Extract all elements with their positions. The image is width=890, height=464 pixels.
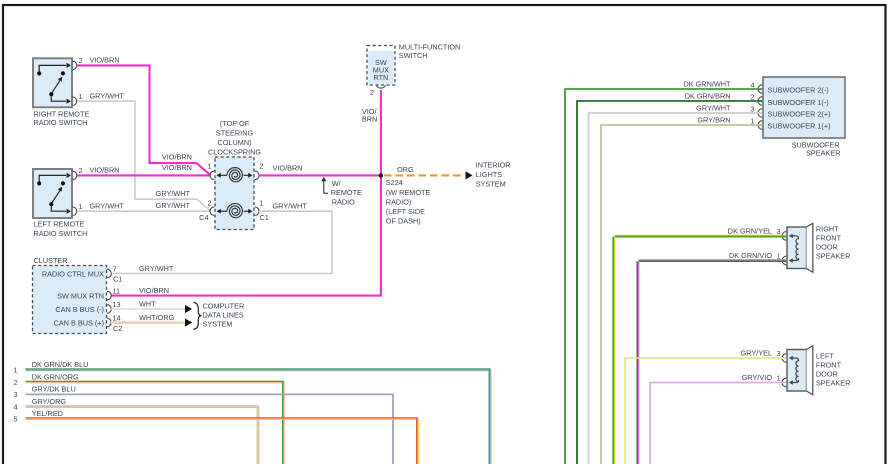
svg-text:5: 5 bbox=[13, 414, 17, 423]
svg-text:W/: W/ bbox=[332, 179, 342, 188]
clockspring left pin 2 connector bbox=[210, 207, 214, 216]
subwoofer pin 2 connector bbox=[758, 97, 762, 106]
wire VIO/BRN right switch pin 2 bbox=[77, 65, 211, 175]
svg-text:3: 3 bbox=[13, 390, 17, 399]
w/ remote radio annotation bbox=[321, 177, 326, 181]
svg-text:DATA LINES: DATA LINES bbox=[203, 311, 244, 320]
right front door speaker pin 3 connector bbox=[782, 232, 786, 241]
svg-text:VIO/BRN: VIO/BRN bbox=[162, 163, 192, 172]
svg-text:GRY/BRN: GRY/BRN bbox=[697, 116, 730, 125]
svg-text:DOOR: DOOR bbox=[816, 242, 838, 251]
svg-text:GRY/DK BLU: GRY/DK BLU bbox=[32, 385, 76, 394]
svg-text:RADIO SWITCH: RADIO SWITCH bbox=[34, 118, 88, 127]
svg-text:S224: S224 bbox=[386, 178, 403, 187]
svg-text:RADIO: RADIO bbox=[332, 198, 355, 207]
wire GRY/WHT bbox=[589, 113, 763, 464]
svg-text:GRY/WHT: GRY/WHT bbox=[273, 201, 308, 210]
svg-text:VIO/BRN: VIO/BRN bbox=[139, 286, 169, 295]
wire DK GRN/ORG bbox=[26, 381, 285, 383]
svg-text:CAN B BUS (-): CAN B BUS (-) bbox=[55, 305, 104, 314]
left front door speaker coil bbox=[790, 358, 798, 383]
svg-text:RIGHT: RIGHT bbox=[816, 224, 839, 233]
svg-text:C4: C4 bbox=[199, 213, 208, 222]
svg-text:2: 2 bbox=[79, 166, 83, 175]
svg-text:GRY/WHT: GRY/WHT bbox=[90, 201, 125, 210]
cluster pin 14 connector bbox=[107, 318, 111, 327]
svg-text:3: 3 bbox=[750, 104, 754, 113]
svg-text:GRY/WHT: GRY/WHT bbox=[139, 264, 174, 273]
svg-text:1: 1 bbox=[260, 199, 264, 208]
svg-text:RADIO): RADIO) bbox=[386, 198, 412, 207]
svg-text:GRY/YEL: GRY/YEL bbox=[741, 348, 773, 357]
subwoofer pin 1 connector bbox=[758, 121, 762, 130]
svg-text:1: 1 bbox=[750, 116, 754, 125]
brace computer data lines bbox=[194, 302, 202, 329]
svg-text:MULTI-FUNCTION: MULTI-FUNCTION bbox=[399, 42, 460, 51]
svg-text:(TOP OF: (TOP OF bbox=[220, 119, 250, 128]
svg-text:VIO/BRN: VIO/BRN bbox=[162, 153, 192, 162]
subwoofer speaker box bbox=[763, 77, 845, 138]
cluster pin 11 connector bbox=[107, 291, 111, 300]
wire DK GRN/VIO bbox=[639, 259, 787, 261]
svg-text:(W/ REMOTE: (W/ REMOTE bbox=[386, 188, 431, 197]
left remote radio switch pin 2 connector bbox=[73, 171, 77, 180]
svg-text:DK GRN/VIO: DK GRN/VIO bbox=[729, 251, 772, 260]
right remote radio switch pin 1 connector bbox=[73, 97, 77, 106]
svg-text:LEFT: LEFT bbox=[816, 351, 834, 360]
subwoofer pin 4 connector bbox=[758, 85, 762, 94]
svg-text:LEFT REMOTE: LEFT REMOTE bbox=[34, 219, 85, 228]
svg-text:DK GRN/YEL: DK GRN/YEL bbox=[728, 226, 772, 235]
svg-text:WHT/ORG: WHT/ORG bbox=[139, 313, 175, 322]
wire GRY/WHT clockspring to cluster bbox=[111, 211, 332, 273]
clockspring right pin 2 connector bbox=[255, 171, 259, 180]
svg-text:SPEAKER: SPEAKER bbox=[806, 149, 840, 158]
wire GRY/WHT left switch pin 1 bbox=[77, 210, 211, 212]
svg-text:REMOTE: REMOTE bbox=[331, 188, 362, 197]
svg-text:7: 7 bbox=[113, 264, 117, 273]
svg-text:WHT: WHT bbox=[139, 299, 156, 308]
svg-text:BRN: BRN bbox=[362, 114, 377, 123]
svg-text:2: 2 bbox=[370, 88, 374, 97]
svg-text:OF DASH): OF DASH) bbox=[386, 217, 421, 226]
splice S224 bbox=[379, 173, 383, 177]
svg-text:COMPUTER: COMPUTER bbox=[203, 302, 245, 311]
svg-text:C1: C1 bbox=[260, 213, 269, 222]
wire VIO/BRN left switch pin 2 bbox=[77, 174, 211, 176]
svg-text:SUBWOOFER 2(-): SUBWOOFER 2(-) bbox=[768, 86, 829, 95]
svg-text:VIO/BRN: VIO/BRN bbox=[90, 166, 120, 175]
left remote radio switch pin 1 connector bbox=[73, 207, 77, 216]
clockspring right pin 1 connector bbox=[255, 207, 259, 216]
right front door speaker coil bbox=[790, 236, 798, 261]
svg-text:GRY/ORG: GRY/ORG bbox=[32, 397, 67, 406]
svg-text:C2: C2 bbox=[113, 324, 122, 333]
multi-function switch pin connector bbox=[377, 85, 386, 88]
svg-text:SPEAKER: SPEAKER bbox=[816, 251, 850, 260]
svg-text:SUBWOOFER 1(-): SUBWOOFER 1(-) bbox=[768, 98, 829, 107]
cluster pin 7 connector bbox=[107, 269, 111, 278]
subwoofer pin 3 connector bbox=[758, 109, 762, 118]
svg-text:VIO/BRN: VIO/BRN bbox=[90, 56, 120, 65]
svg-text:GRY/WHT: GRY/WHT bbox=[696, 104, 731, 113]
svg-text:YEL/RED: YEL/RED bbox=[32, 409, 63, 418]
right front door speaker cone bbox=[807, 223, 813, 272]
svg-text:1: 1 bbox=[79, 202, 83, 211]
wire DK GRN/WHT bbox=[565, 89, 762, 464]
svg-text:3: 3 bbox=[777, 349, 781, 358]
svg-text:2: 2 bbox=[207, 199, 211, 208]
cluster pin 13 connector bbox=[107, 305, 111, 314]
svg-text:DOOR: DOOR bbox=[816, 369, 838, 378]
clockspring left pin 1 connector bbox=[210, 171, 214, 180]
svg-text:13: 13 bbox=[113, 300, 121, 309]
svg-text:VIO/BRN: VIO/BRN bbox=[273, 164, 303, 173]
svg-text:14: 14 bbox=[113, 313, 121, 322]
right remote radio switch box bbox=[33, 58, 72, 107]
svg-text:SW MUX RTN: SW MUX RTN bbox=[57, 292, 104, 301]
multi-function switch dashed box bbox=[367, 46, 395, 86]
arrow WHT/ORG to computer data lines bbox=[185, 318, 192, 326]
right front door speaker box bbox=[787, 227, 807, 269]
svg-text:INTERIOR: INTERIOR bbox=[476, 161, 511, 170]
clockspring arrows bottom bbox=[219, 210, 227, 212]
svg-text:FRONT: FRONT bbox=[816, 233, 842, 242]
wire YEL/RED bbox=[26, 417, 419, 419]
svg-text:DK GRN/BRN: DK GRN/BRN bbox=[685, 92, 731, 101]
wire WHT bbox=[111, 308, 185, 310]
wire GRY/BRN bbox=[601, 125, 762, 464]
wire VIO/BRN junction to cluster pin 11 bbox=[111, 175, 381, 295]
svg-text:RTN: RTN bbox=[373, 73, 388, 82]
svg-text:2: 2 bbox=[750, 92, 754, 101]
clockspring coil top bbox=[227, 168, 243, 182]
svg-text:ORG: ORG bbox=[397, 165, 414, 174]
svg-text:DK GRN/DK BLU: DK GRN/DK BLU bbox=[32, 360, 89, 369]
svg-text:2: 2 bbox=[13, 378, 17, 387]
svg-text:CAN B BUS (+): CAN B BUS (+) bbox=[54, 319, 104, 328]
left front door speaker pin 1 connector bbox=[782, 378, 786, 387]
svg-text:SPEAKER: SPEAKER bbox=[816, 378, 850, 387]
svg-text:LIGHTS: LIGHTS bbox=[476, 170, 502, 179]
wire DK GRN/YEL bbox=[615, 234, 787, 236]
svg-text:4: 4 bbox=[13, 402, 17, 411]
svg-text:(LEFT SIDE: (LEFT SIDE bbox=[386, 207, 425, 216]
svg-text:11: 11 bbox=[113, 286, 121, 295]
svg-text:RADIO CTRL MUX: RADIO CTRL MUX bbox=[42, 270, 104, 279]
wire WHT/ORG bbox=[111, 321, 185, 323]
left front door speaker cone bbox=[807, 346, 813, 395]
svg-text:SUBWOOFER 2(+): SUBWOOFER 2(+) bbox=[768, 110, 831, 119]
svg-text:SUBWOOFER 1(+): SUBWOOFER 1(+) bbox=[768, 122, 831, 131]
svg-text:DK GRN/WHT: DK GRN/WHT bbox=[683, 80, 731, 89]
clockspring coil bottom bbox=[227, 203, 243, 217]
svg-text:1: 1 bbox=[777, 374, 781, 383]
svg-text:SYSTEM: SYSTEM bbox=[203, 320, 233, 329]
wire GRY/YEL bbox=[625, 358, 786, 464]
svg-text:STEERING: STEERING bbox=[216, 129, 254, 138]
wire VIO/BRN multi-function switch down bbox=[380, 90, 382, 175]
svg-text:GRY/WHT: GRY/WHT bbox=[156, 189, 191, 198]
svg-text:C1: C1 bbox=[113, 275, 122, 284]
svg-text:CLOCKSPRING: CLOCKSPRING bbox=[208, 147, 261, 156]
svg-text:CLUSTER: CLUSTER bbox=[34, 256, 68, 265]
right front door speaker pin 1 connector bbox=[782, 256, 786, 265]
wire ORG dashed to interior lights bbox=[384, 174, 464, 176]
left front door speaker pin 3 connector bbox=[782, 354, 786, 363]
svg-text:1: 1 bbox=[13, 365, 17, 374]
svg-text:4: 4 bbox=[750, 80, 754, 89]
svg-text:2: 2 bbox=[79, 56, 83, 65]
wire GRY/ORG bbox=[26, 405, 259, 407]
left remote radio switch box bbox=[33, 169, 72, 218]
wire GRY/VIO bbox=[650, 383, 786, 464]
svg-text:GRY/VIO: GRY/VIO bbox=[742, 373, 773, 382]
svg-text:FRONT: FRONT bbox=[816, 360, 842, 369]
wire DK GRN/BRN bbox=[577, 101, 762, 464]
svg-text:GRY/WHT: GRY/WHT bbox=[156, 201, 191, 210]
svg-text:COLUMN): COLUMN) bbox=[217, 138, 251, 147]
svg-text:RADIO SWITCH: RADIO SWITCH bbox=[34, 229, 88, 238]
left front door speaker box bbox=[787, 350, 807, 392]
svg-text:GRY/WHT: GRY/WHT bbox=[90, 92, 125, 101]
clockspring arrows top bbox=[219, 174, 227, 176]
svg-text:SWITCH: SWITCH bbox=[399, 51, 428, 60]
arrow WHT to computer data lines bbox=[185, 305, 192, 313]
svg-text:SYSTEM: SYSTEM bbox=[476, 179, 506, 188]
right remote radio switch switch symbol bbox=[39, 65, 66, 101]
clockspring dashed box bbox=[215, 157, 254, 230]
right remote radio switch pin 2 connector bbox=[73, 61, 77, 70]
wire GRY/DK BLU bbox=[26, 394, 394, 464]
svg-text:DK GRN/ORG: DK GRN/ORG bbox=[32, 373, 79, 382]
wire GRY/WHT right switch pin 1 bbox=[77, 101, 211, 211]
arrow to interior lights system bbox=[466, 171, 473, 179]
svg-text:1: 1 bbox=[207, 161, 211, 170]
left remote radio switch switch symbol bbox=[39, 175, 66, 211]
wire VIO/BRN clockspring to junction bbox=[259, 174, 381, 176]
svg-text:1: 1 bbox=[79, 92, 83, 101]
wire DK GRN/DK BLU bbox=[26, 368, 491, 370]
cluster dashed box bbox=[33, 266, 107, 334]
svg-text:2: 2 bbox=[260, 161, 264, 170]
